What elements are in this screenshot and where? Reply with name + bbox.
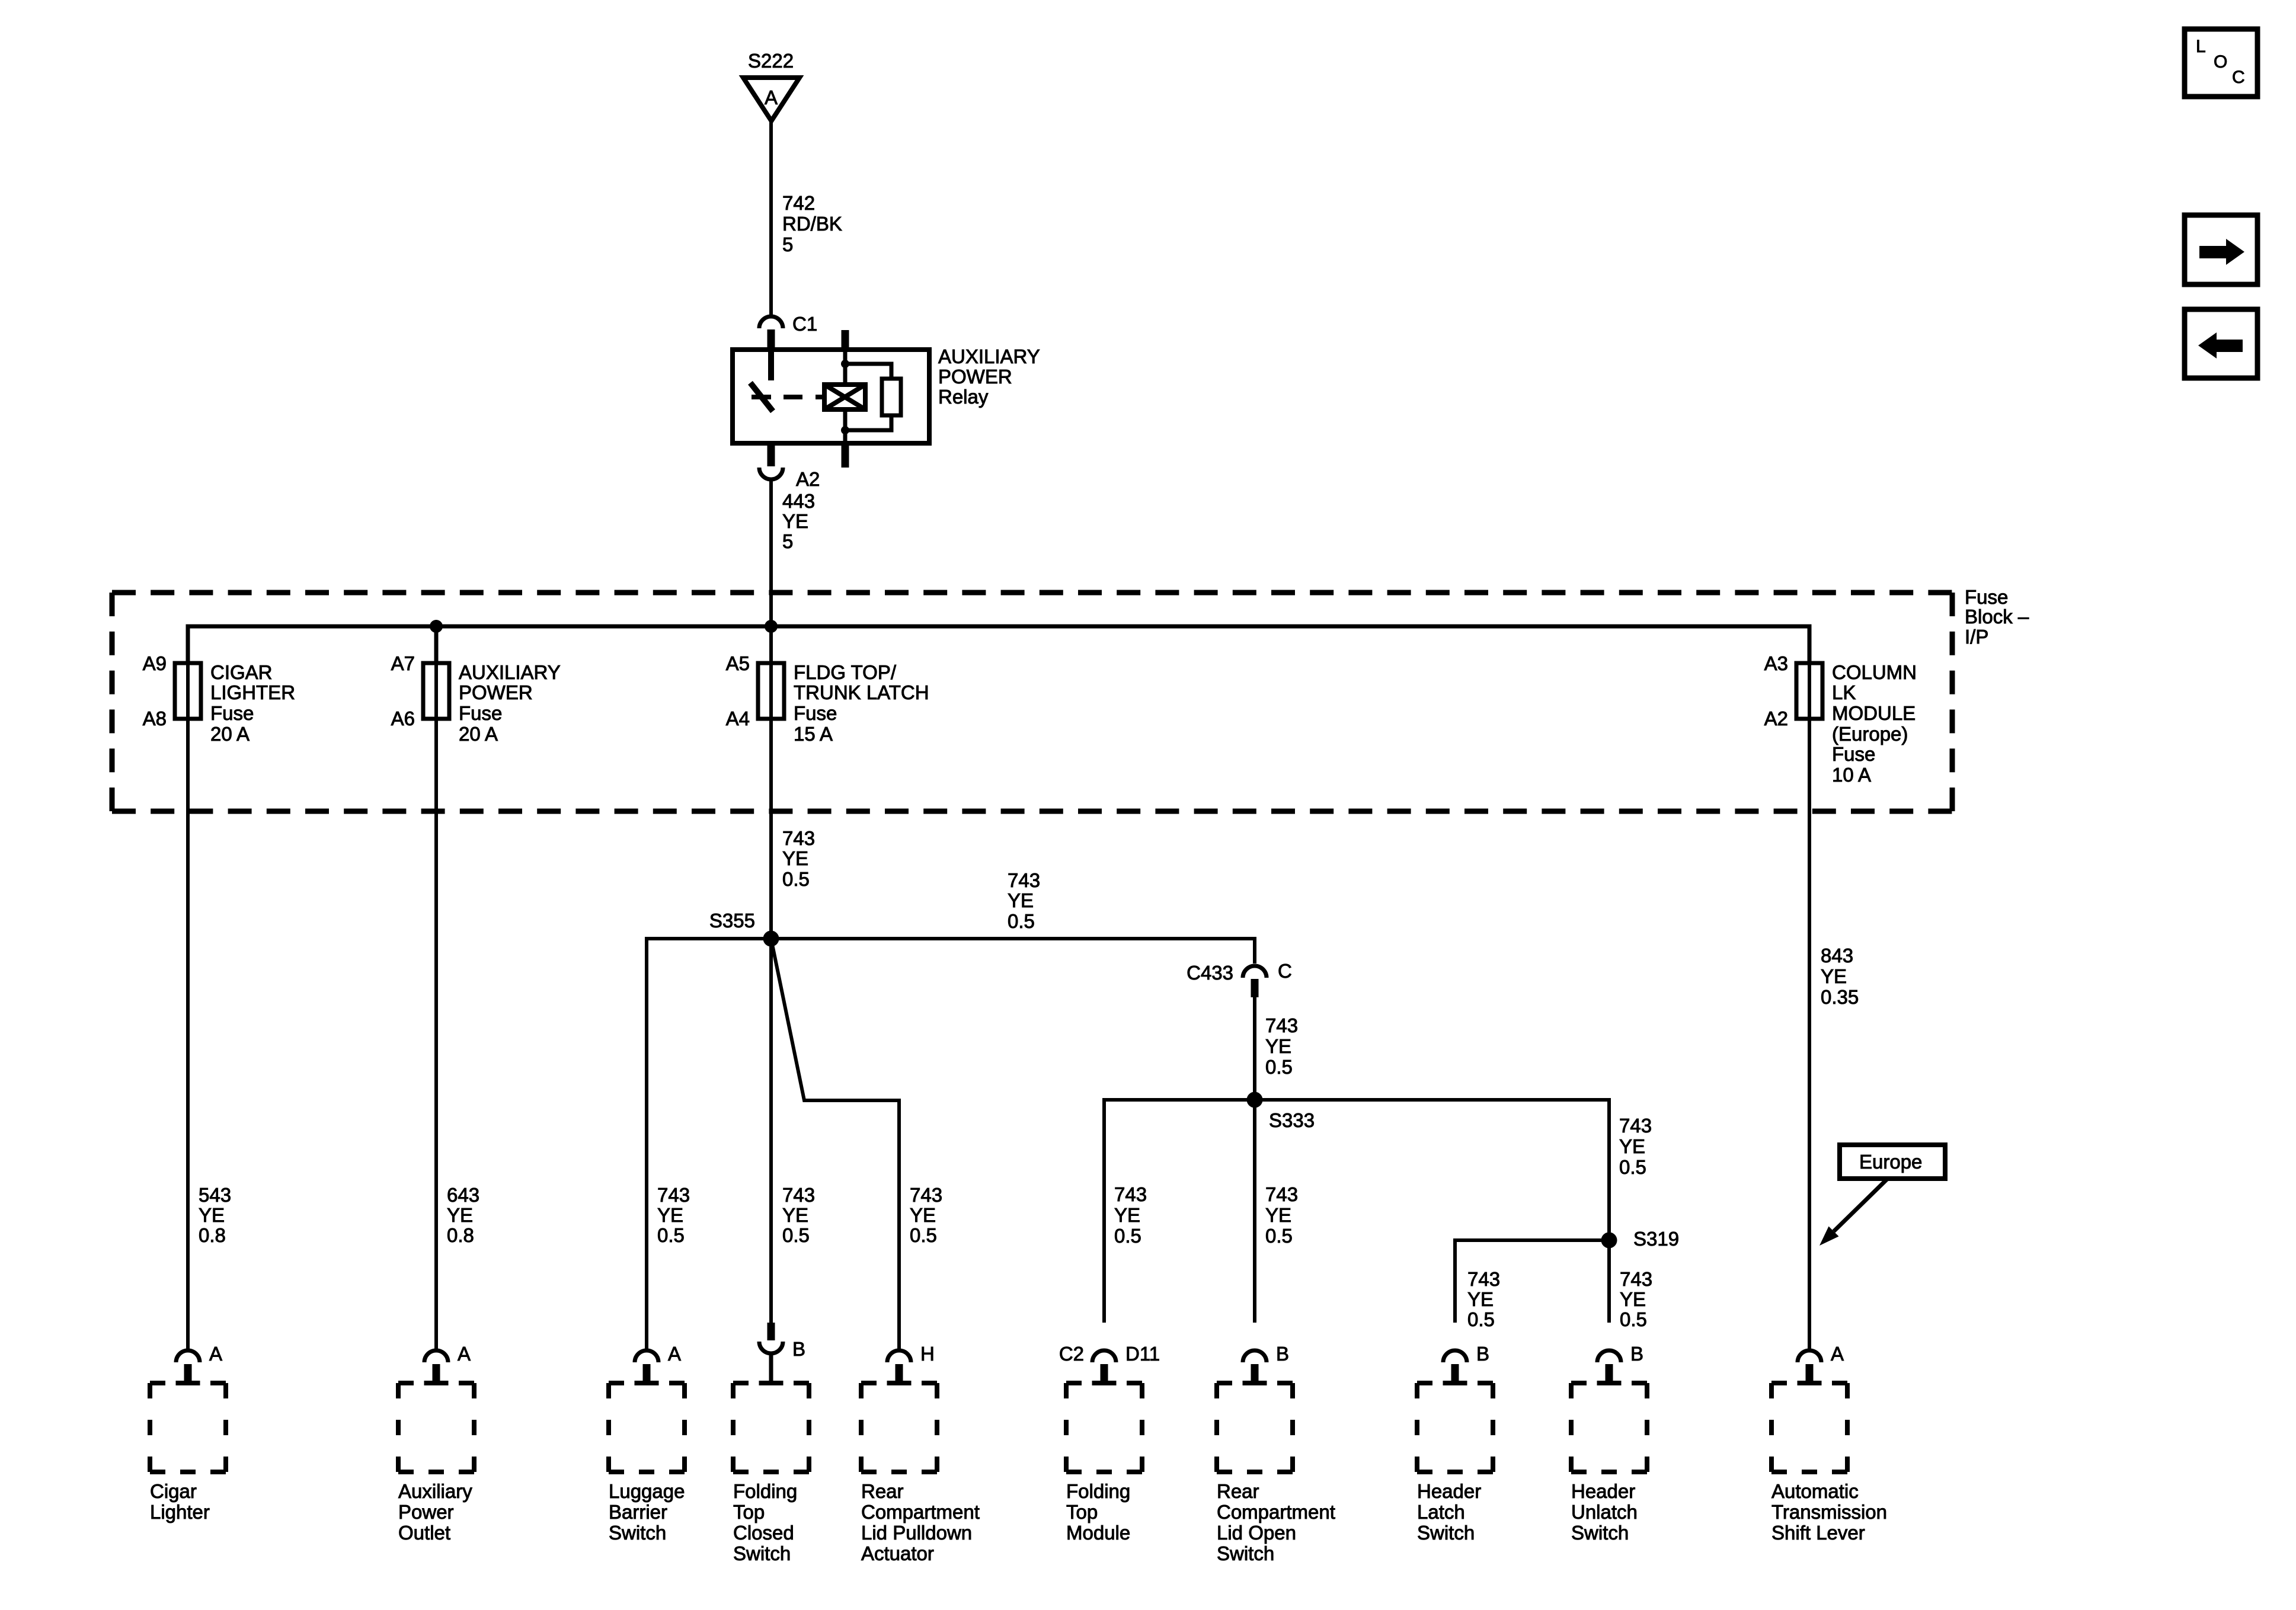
svg-text:Compartment: Compartment	[1217, 1501, 1335, 1523]
svg-text:Top: Top	[1066, 1501, 1098, 1523]
svg-text:A2: A2	[796, 468, 820, 490]
svg-text:Europe: Europe	[1859, 1151, 1922, 1173]
svg-text:Fuse: Fuse	[459, 702, 502, 724]
svg-text:0.5: 0.5	[1467, 1308, 1495, 1330]
svg-text:Header: Header	[1571, 1480, 1635, 1502]
svg-text:A2: A2	[1764, 708, 1788, 729]
svg-text:COLUMN: COLUMN	[1832, 661, 1917, 683]
wire 843 fuse A2 drop to shift lever	[1808, 663, 1811, 1349]
svg-text:543: 543	[199, 1184, 231, 1206]
svg-text:10 A: 10 A	[1832, 764, 1871, 786]
svg-text:743: 743	[1619, 1115, 1652, 1137]
svg-text:443: 443	[782, 490, 815, 512]
svg-text:C433: C433	[1187, 962, 1233, 984]
wire S355 to connector C433	[771, 939, 1255, 964]
back arrow icon	[2185, 309, 2257, 378]
forward arrow icon	[2185, 215, 2257, 284]
svg-text:A: A	[1831, 1343, 1844, 1365]
svg-text:743: 743	[1620, 1268, 1652, 1290]
svg-text:0.5: 0.5	[1265, 1056, 1293, 1078]
svg-text:0.5: 0.5	[1114, 1225, 1141, 1247]
connector pin at Cigar Lighter	[176, 1350, 200, 1362]
svg-text:A: A	[668, 1343, 681, 1365]
svg-text:YE: YE	[1620, 1288, 1646, 1310]
svg-text:YE: YE	[1265, 1204, 1291, 1226]
svg-text:843: 843	[1821, 945, 1853, 966]
component box: Header Latch Switch	[1417, 1381, 1493, 1385]
wire S355 to luggage barrier switch	[647, 939, 771, 1349]
wire S333 branch to folding top module	[1104, 1100, 1255, 1323]
svg-text:Block –: Block –	[1965, 606, 2029, 628]
Fuse Block - I/P dashed outline	[112, 590, 1952, 596]
pin C1 connector of relay	[759, 316, 783, 328]
svg-text:FLDG TOP/: FLDG TOP/	[794, 661, 897, 683]
connector pin at Header Latch Switch	[1443, 1350, 1467, 1362]
svg-text:743: 743	[1265, 1014, 1298, 1036]
svg-text:Latch: Latch	[1417, 1501, 1465, 1523]
svg-text:0.5: 0.5	[1265, 1225, 1293, 1247]
svg-text:Unlatch: Unlatch	[1571, 1501, 1638, 1523]
relay: AUXILIARY POWER Relay box	[733, 350, 929, 443]
svg-text:A4: A4	[726, 708, 750, 729]
svg-text:Switch: Switch	[1571, 1522, 1629, 1544]
splice S333	[1247, 1092, 1263, 1108]
svg-text:A8: A8	[143, 708, 167, 729]
svg-text:D11: D11	[1125, 1343, 1160, 1365]
svg-text:A7: A7	[391, 652, 415, 674]
svg-text:A6: A6	[391, 708, 415, 729]
svg-text:743: 743	[1008, 869, 1040, 891]
component box: Header Unlatch Switch	[1571, 1381, 1647, 1385]
svg-text:0.5: 0.5	[782, 868, 810, 890]
svg-text:743: 743	[910, 1184, 942, 1206]
svg-text:Lid Pulldown: Lid Pulldown	[861, 1522, 972, 1544]
fuse A5/A4 FLDG TOP/TRUNK LATCH 15 A	[758, 663, 784, 719]
svg-text:A3: A3	[1764, 652, 1788, 674]
svg-text:743: 743	[657, 1184, 690, 1206]
svg-text:Compartment: Compartment	[861, 1501, 980, 1523]
pin A2 connector of relay	[768, 443, 775, 466]
wire S319 to header latch switch	[1455, 1240, 1609, 1323]
svg-text:743: 743	[782, 1184, 815, 1206]
svg-text:Fuse: Fuse	[210, 702, 254, 724]
svg-text:643: 643	[447, 1184, 479, 1206]
svg-text:S222: S222	[748, 50, 794, 72]
svg-text:O: O	[2214, 52, 2227, 72]
svg-text:A5: A5	[726, 652, 750, 674]
relay switch contact	[768, 352, 774, 380]
svg-text:CIGAR: CIGAR	[210, 661, 273, 683]
svg-text:S319: S319	[1633, 1228, 1679, 1250]
connector pin at Header Unlatch Switch	[1597, 1350, 1621, 1362]
component box: Folding Top Closed Switch	[733, 1381, 809, 1385]
wire S333 down to rear compartment lid open switch	[1253, 1100, 1256, 1323]
LOC reference icon	[2185, 29, 2257, 97]
junction	[841, 426, 849, 434]
svg-text:Folding: Folding	[1066, 1480, 1130, 1502]
svg-text:0.35: 0.35	[1821, 986, 1859, 1008]
svg-text:Lid Open: Lid Open	[1217, 1522, 1296, 1544]
svg-text:743: 743	[782, 827, 815, 849]
svg-text:S333: S333	[1269, 1109, 1315, 1131]
component box: Auxiliary Power Outlet	[398, 1381, 474, 1385]
svg-text:5: 5	[782, 530, 793, 552]
relay coil	[824, 385, 865, 409]
svg-text:Switch: Switch	[1417, 1522, 1475, 1544]
component box: Rear Compartment Lid Pulldown Actuator	[861, 1381, 937, 1385]
svg-text:743: 743	[1114, 1183, 1147, 1205]
svg-text:A: A	[458, 1343, 471, 1365]
connector pin at Automatic Transmission Shift Lever	[1798, 1350, 1821, 1362]
connector C433 pin C	[1243, 966, 1267, 978]
junction on bus	[430, 620, 443, 633]
relay internal resistor	[845, 364, 891, 379]
svg-text:Power: Power	[398, 1501, 454, 1523]
svg-text:Module: Module	[1066, 1522, 1130, 1544]
svg-text:I/P: I/P	[1965, 626, 1988, 648]
svg-text:Top: Top	[733, 1501, 765, 1523]
Europe callout box	[1840, 1145, 1945, 1179]
svg-text:743: 743	[1265, 1183, 1298, 1205]
svg-text:YE: YE	[782, 510, 808, 532]
svg-text:Cigar: Cigar	[150, 1480, 197, 1502]
svg-text:MODULE: MODULE	[1832, 702, 1916, 724]
svg-text:B: B	[792, 1338, 805, 1360]
svg-text:Folding: Folding	[733, 1480, 797, 1502]
svg-text:Auxiliary: Auxiliary	[398, 1480, 472, 1502]
connector pin at Rear Compartment Lid Open Switch	[1243, 1350, 1267, 1362]
component box: Automatic Transmission Shift Lever	[1771, 1381, 1847, 1385]
svg-text:0.8: 0.8	[199, 1224, 226, 1246]
wire S319 down to header unlatch switch	[1607, 1240, 1611, 1323]
svg-text:Actuator: Actuator	[861, 1542, 934, 1564]
svg-text:YE: YE	[782, 1204, 808, 1226]
wire 742 from S222 to relay C1	[769, 121, 773, 315]
svg-text:YE: YE	[447, 1204, 473, 1226]
component box: Rear Compartment Lid Open Switch	[1217, 1381, 1293, 1385]
connector pin at Rear Compartment Lid Pulldown Actuator	[887, 1350, 911, 1362]
svg-text:POWER: POWER	[459, 681, 533, 703]
svg-text:(Europe): (Europe)	[1832, 723, 1908, 745]
svg-text:Barrier: Barrier	[609, 1501, 667, 1523]
component box: Folding Top Module	[1066, 1381, 1142, 1385]
relay coil supply wire and pins	[842, 330, 849, 350]
svg-text:YE: YE	[199, 1204, 225, 1226]
wire 543 cigar lighter drop	[186, 626, 190, 1349]
svg-text:L: L	[2196, 37, 2206, 56]
svg-text:Automatic: Automatic	[1771, 1480, 1859, 1502]
svg-text:YE: YE	[1265, 1035, 1291, 1057]
svg-text:Closed: Closed	[733, 1522, 794, 1544]
svg-text:A: A	[765, 87, 778, 108]
svg-text:B: B	[1630, 1343, 1643, 1365]
svg-text:Switch: Switch	[733, 1542, 791, 1564]
svg-text:Transmission: Transmission	[1771, 1501, 1887, 1523]
svg-text:YE: YE	[1467, 1288, 1494, 1310]
component box: Luggage Barrier Switch	[609, 1381, 685, 1385]
svg-text:Header: Header	[1417, 1480, 1481, 1502]
svg-text:Rear: Rear	[861, 1480, 904, 1502]
svg-text:0.5: 0.5	[782, 1224, 810, 1246]
svg-text:15 A: 15 A	[794, 723, 833, 745]
svg-text:C: C	[1278, 960, 1292, 982]
svg-text:Rear: Rear	[1217, 1480, 1259, 1502]
fuse A3/A2 COLUMN LK MODULE (Europe) 10 A	[1796, 663, 1822, 719]
connector pin at Auxiliary Power Outlet	[424, 1350, 448, 1362]
svg-text:Relay: Relay	[938, 386, 989, 408]
svg-text:A9: A9	[143, 652, 167, 674]
svg-text:YE: YE	[782, 847, 808, 869]
svg-text:Fuse: Fuse	[1965, 586, 2008, 608]
wire 643 auxiliary outlet drop	[434, 663, 438, 1349]
svg-text:YE: YE	[657, 1204, 683, 1226]
svg-text:B: B	[1276, 1343, 1289, 1365]
svg-text:0.5: 0.5	[1008, 910, 1035, 932]
svg-text:YE: YE	[910, 1204, 936, 1226]
svg-text:C2: C2	[1059, 1343, 1084, 1365]
svg-text:742: 742	[782, 192, 815, 214]
connector pin at Folding Top Module	[1092, 1350, 1116, 1362]
svg-text:A: A	[209, 1343, 222, 1365]
svg-text:YE: YE	[1619, 1135, 1645, 1157]
wire S333 to S319	[1255, 1100, 1609, 1240]
svg-text:Lighter: Lighter	[150, 1501, 210, 1523]
svg-text:Fuse: Fuse	[1832, 743, 1875, 765]
bus wire inside fuse block	[188, 626, 1809, 663]
svg-text:YE: YE	[1114, 1204, 1140, 1226]
svg-text:LIGHTER: LIGHTER	[210, 681, 295, 703]
svg-text:0.5: 0.5	[910, 1224, 937, 1246]
svg-text:Switch: Switch	[609, 1522, 666, 1544]
svg-text:C: C	[2232, 68, 2245, 87]
wire C433 to S333	[1253, 997, 1256, 1100]
svg-text:AUXILIARY: AUXILIARY	[938, 345, 1040, 367]
svg-text:0.5: 0.5	[657, 1224, 685, 1246]
svg-text:0.5: 0.5	[1619, 1156, 1646, 1178]
svg-text:0.5: 0.5	[1620, 1308, 1647, 1330]
connector pin at Luggage Barrier Switch	[635, 1350, 658, 1362]
splice S355	[763, 931, 779, 947]
svg-text:YE: YE	[1008, 889, 1034, 911]
svg-text:LK: LK	[1832, 681, 1856, 703]
svg-text:RD/BK: RD/BK	[782, 213, 842, 235]
svg-text:H: H	[920, 1343, 935, 1365]
svg-text:5: 5	[782, 233, 793, 255]
svg-text:Fuse: Fuse	[794, 702, 837, 724]
wire S355 to rear compartment lid pulldown actuator	[771, 939, 899, 1349]
junction	[841, 360, 849, 368]
svg-text:Switch: Switch	[1217, 1542, 1274, 1564]
svg-text:20 A: 20 A	[210, 723, 250, 745]
svg-text:POWER: POWER	[938, 366, 1012, 388]
svg-text:YE: YE	[1821, 965, 1847, 987]
svg-text:S355: S355	[709, 910, 755, 932]
svg-text:AUXILIARY: AUXILIARY	[459, 661, 561, 683]
svg-text:TRUNK LATCH: TRUNK LATCH	[794, 681, 929, 703]
svg-text:B: B	[1476, 1343, 1489, 1365]
connector pin at Folding Top Closed Switch	[768, 1323, 775, 1340]
svg-text:C1: C1	[792, 313, 817, 335]
wire 443 relay A2 to fuse block	[769, 480, 773, 626]
svg-text:Outlet: Outlet	[398, 1522, 450, 1544]
wire 743 fuse A4 to S355 and folding top closed switch	[769, 626, 773, 1323]
svg-text:0.8: 0.8	[447, 1224, 474, 1246]
fuse A7/A6 AUXILIARY POWER 20 A	[423, 663, 449, 719]
fuse A9/A8 CIGAR LIGHTER 20 A	[175, 663, 201, 719]
svg-text:Shift Lever: Shift Lever	[1771, 1522, 1865, 1544]
junction on bus	[765, 620, 778, 633]
splice S319	[1601, 1233, 1617, 1249]
relay actuation dashed link	[784, 395, 824, 399]
component box: Cigar Lighter	[150, 1381, 226, 1385]
svg-text:743: 743	[1467, 1268, 1500, 1290]
Europe callout arrow	[1834, 1179, 1887, 1231]
svg-text:20 A: 20 A	[459, 723, 498, 745]
svg-text:Luggage: Luggage	[609, 1480, 685, 1502]
